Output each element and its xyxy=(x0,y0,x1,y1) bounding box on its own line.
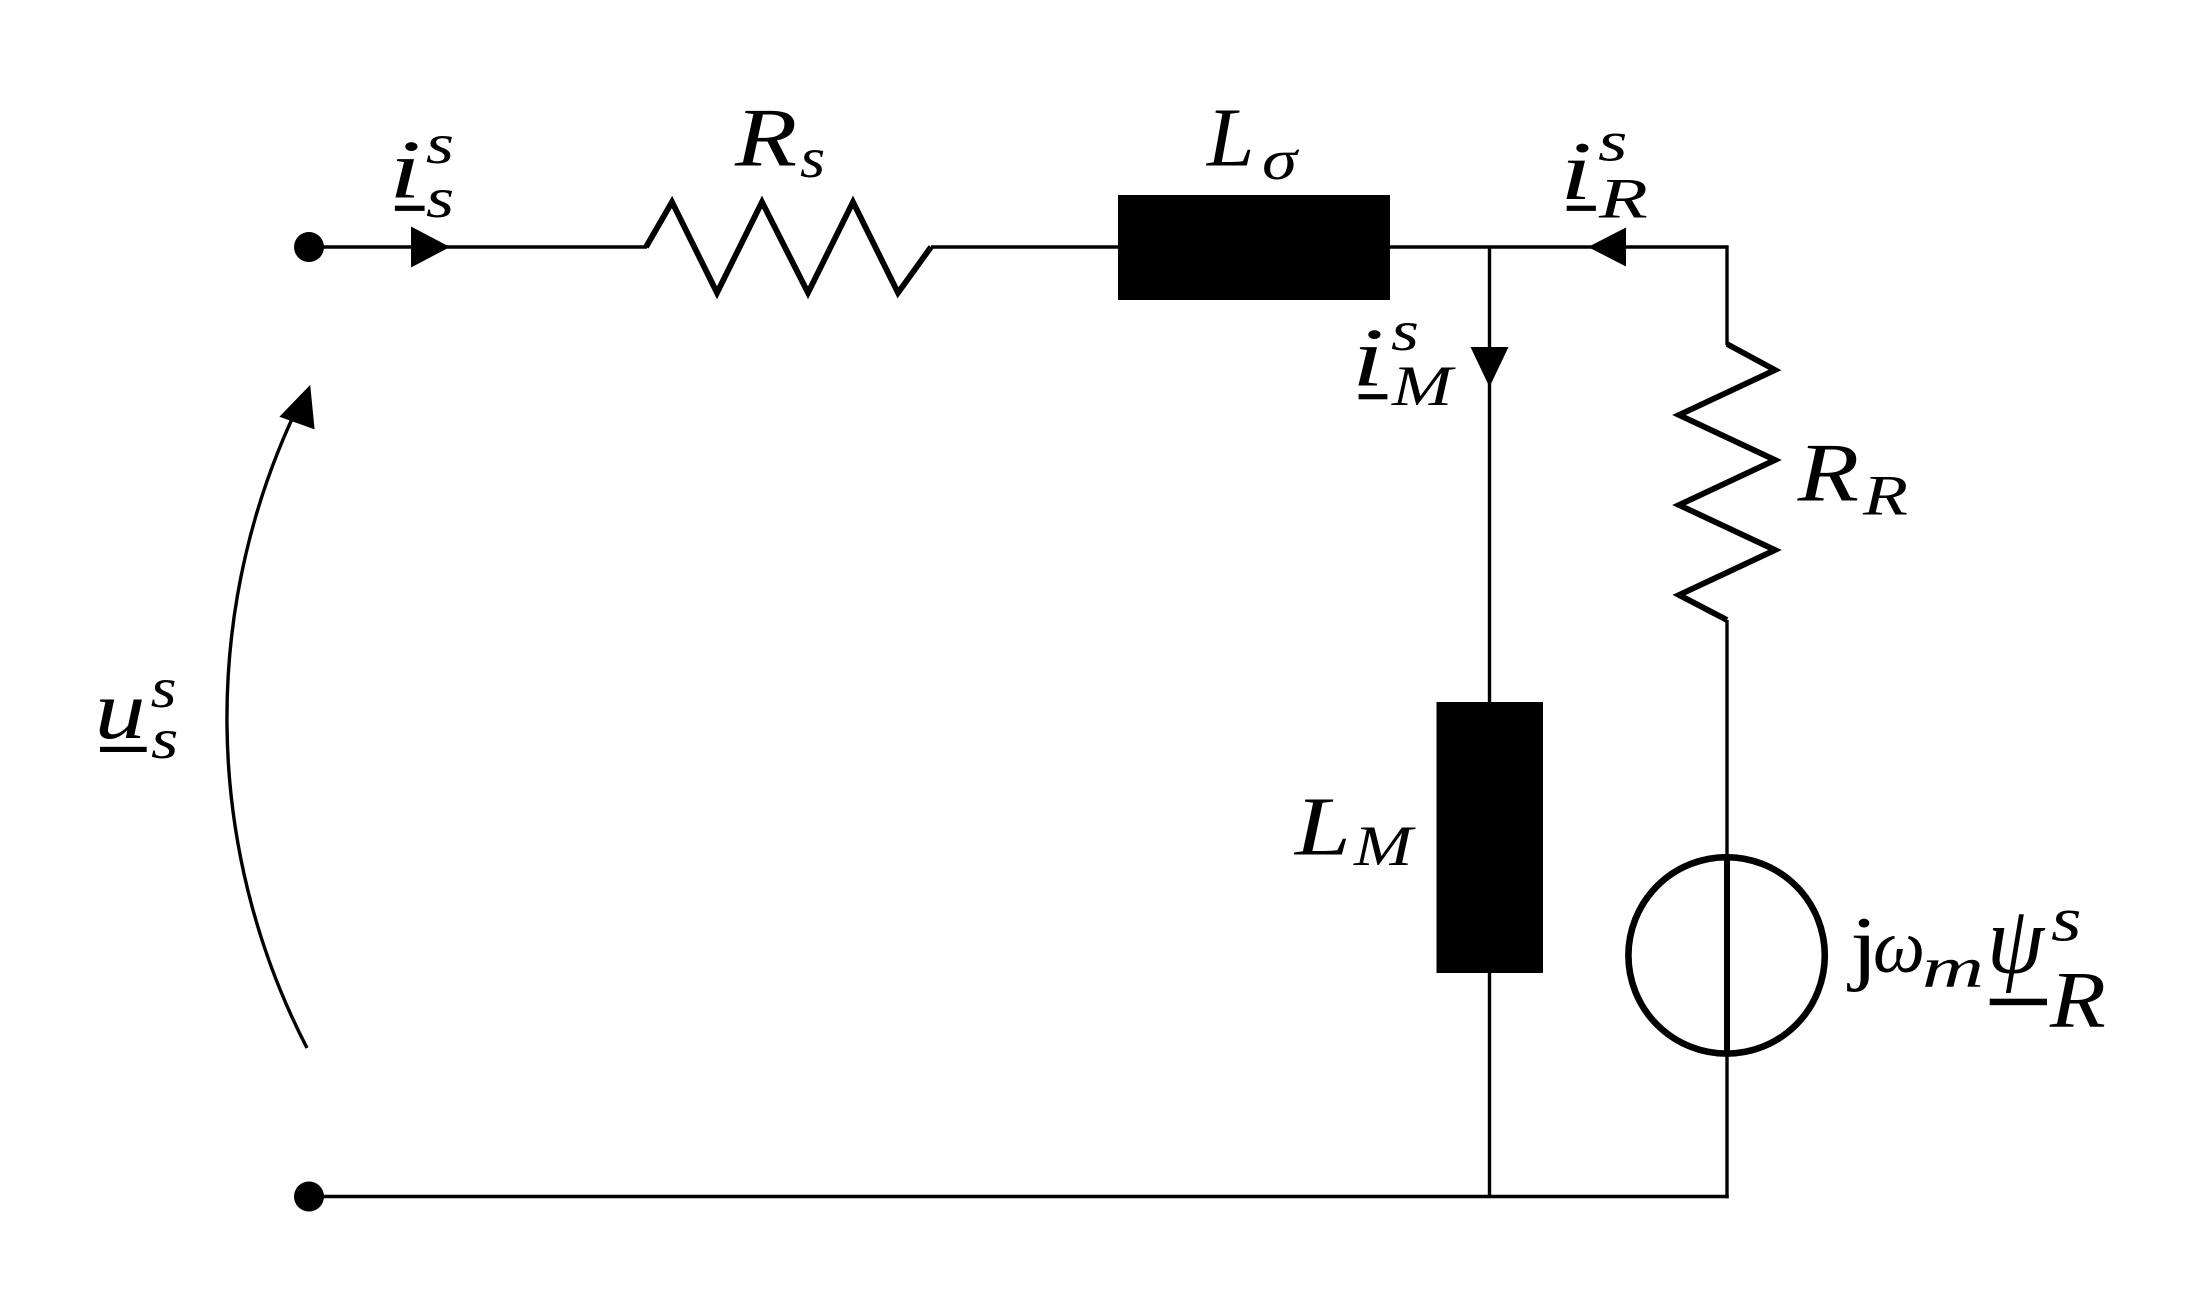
label i_R^s xyxy=(1560,111,1648,231)
arrow: i_R current arrow (left) xyxy=(1588,228,1626,267)
current source diameter line xyxy=(1724,855,1730,1056)
wire: L_sigma to right corner xyxy=(1390,245,1727,248)
inductor L_sigma xyxy=(1118,195,1390,300)
current source (circle) xyxy=(1628,857,1824,1053)
label L_M xyxy=(1294,781,1417,878)
svg-text:R: R xyxy=(1862,465,1908,528)
label j omega_m psi_R^s xyxy=(1846,884,2105,1045)
svg-text:s: s xyxy=(1391,300,1419,363)
svg-text:i: i xyxy=(1560,125,1592,218)
wire: R_R to current source xyxy=(1725,620,1728,860)
svg-text:s: s xyxy=(426,167,454,230)
svg-text:L: L xyxy=(1294,781,1351,874)
svg-text:R: R xyxy=(1598,168,1648,231)
svg-text:s: s xyxy=(1598,111,1628,174)
arrow: u_s voltage arc (curved) xyxy=(227,400,307,1048)
svg-text:R: R xyxy=(2049,957,2106,1045)
svg-text:ψ: ψ xyxy=(1987,887,2045,994)
label R_R xyxy=(1797,427,1908,528)
svg-text:m: m xyxy=(1922,936,1984,999)
svg-text:s: s xyxy=(2051,884,2082,955)
label R_s xyxy=(734,91,825,190)
arrow: i_M current arrow (down) xyxy=(1471,347,1509,387)
wire: L_M to bottom wire xyxy=(1488,973,1491,1197)
node: bottom-left terminal xyxy=(294,1182,324,1212)
wire: R_s to L_sigma xyxy=(931,245,1120,248)
wire: current source to bottom wire xyxy=(1725,1053,1728,1198)
wire: bottom wire xyxy=(309,1195,1729,1198)
node: top-left terminal xyxy=(294,232,324,262)
svg-text:i: i xyxy=(389,123,421,216)
wire: top wire, terminal to R_s xyxy=(309,245,647,248)
inductor L_M xyxy=(1437,702,1544,973)
resistor R_R xyxy=(1679,344,1775,620)
svg-text:R: R xyxy=(734,91,797,184)
arrow: i_s current arrow xyxy=(411,227,450,268)
svg-text:ω: ω xyxy=(1873,905,1925,989)
label L_sigma xyxy=(1206,91,1299,192)
label i_M^s xyxy=(1352,300,1457,418)
svg-text:σ: σ xyxy=(1262,129,1299,192)
resistor R_s xyxy=(646,202,931,293)
svg-text:L: L xyxy=(1206,91,1254,184)
wire: middle branch junction to L_M xyxy=(1488,247,1491,704)
svg-text:M: M xyxy=(1353,815,1417,878)
svg-text:u: u xyxy=(95,664,146,757)
svg-text:R: R xyxy=(1797,427,1860,520)
label u_s^s xyxy=(95,657,179,771)
svg-text:s: s xyxy=(151,708,178,771)
svg-text:i: i xyxy=(1352,311,1384,404)
svg-text:s: s xyxy=(800,127,825,190)
label i_s^s xyxy=(389,113,454,230)
wire: right corner down to R_R xyxy=(1725,245,1728,345)
svg-text:M: M xyxy=(1391,355,1457,418)
